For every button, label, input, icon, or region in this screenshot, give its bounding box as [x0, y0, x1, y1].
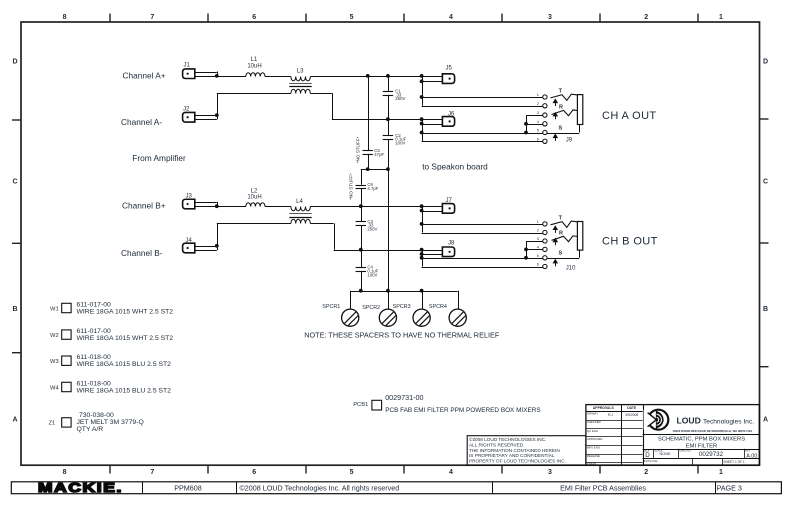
footer assemblies	[560, 483, 646, 492]
wire J1 to L1	[217, 76, 246, 78]
label Channel B+	[122, 201, 166, 211]
wire L4 bottom output down to B- bus	[310, 223, 334, 249]
svg-text:QC ENG: QC ENG	[587, 429, 598, 433]
svg-text:SPCR2: SPCR2	[362, 305, 380, 311]
size scale dwg rev row	[644, 448, 757, 459]
svg-text:SPCR1: SPCR1	[322, 304, 340, 310]
jack J9 CH A OUT	[422, 89, 583, 144]
node J8 blade top	[420, 248, 424, 252]
pcb item PCB1	[353, 393, 540, 414]
svg-text:5: 5	[350, 14, 354, 21]
svg-text:J10: J10	[566, 265, 576, 271]
ground bus to spacers	[350, 291, 458, 293]
svg-text:611-018-00: 611-018-00	[77, 381, 111, 388]
wire J3 to L2	[217, 206, 246, 208]
node J7 blade bottom	[420, 209, 424, 213]
node A- bus at C2	[386, 117, 390, 121]
svg-text:From Amplifier: From Amplifier	[132, 153, 186, 163]
wire L2 to L4	[265, 206, 291, 208]
node A+ bus at right cap column	[386, 74, 390, 78]
svg-text:B: B	[12, 306, 17, 313]
svg-text:2: 2	[644, 14, 648, 21]
label Channel A-	[121, 117, 162, 127]
svg-text:5: 5	[537, 254, 539, 258]
svg-text:SPCR4: SPCR4	[429, 304, 447, 310]
svg-text:2: 2	[644, 469, 648, 476]
wire L3 top output to J5 bus	[310, 76, 421, 78]
svg-text:1: 1	[719, 469, 723, 476]
grid column numbers	[63, 14, 723, 476]
svg-text:6: 6	[537, 263, 539, 267]
wire item W3	[50, 354, 171, 368]
svg-text:W3: W3	[50, 359, 59, 365]
svg-text:APPROVED: APPROVED	[587, 437, 603, 441]
svg-text:4.7pF: 4.7pF	[367, 186, 378, 191]
wire L4 top output to J7 bus	[310, 206, 421, 208]
node junction bar right	[386, 167, 390, 171]
approvals table text	[587, 406, 638, 466]
node J8 blade bottom	[420, 252, 424, 256]
svg-text:NONE: NONE	[660, 452, 671, 456]
svg-text:EMI Filter PCB Assemblies: EMI Filter PCB Assemblies	[560, 483, 646, 492]
svg-text:3: 3	[537, 111, 539, 115]
note about spacers	[304, 331, 500, 340]
wire B- bus to J8	[334, 250, 422, 252]
node on A+ at J1	[215, 74, 219, 78]
svg-text:MFG ENG: MFG ENG	[587, 446, 600, 450]
svg-text:DATE: DATE	[627, 406, 637, 410]
footer table	[11, 482, 781, 494]
svg-text:DATA FILE: DATA FILE	[644, 459, 658, 463]
svg-text:1: 1	[719, 14, 723, 21]
svg-text:J5: J5	[446, 65, 453, 71]
svg-text:WIRE 18GA 1015 WHT 2.5 ST2: WIRE 18GA 1015 WHT 2.5 ST2	[77, 335, 174, 342]
capacitor C4 0.1uF 100V	[356, 250, 379, 291]
spacer SPCR2	[362, 291, 396, 327]
svg-text:Z1: Z1	[49, 420, 56, 426]
svg-text:DRAWN: DRAWN	[587, 412, 597, 416]
node sleeve branch A	[420, 131, 424, 135]
label Channel A+	[123, 70, 166, 80]
wire item W1	[50, 302, 173, 316]
svg-text:10uH: 10uH	[247, 63, 261, 69]
svg-text:IS PROPRIETARY AND CONFIDENTIA: IS PROPRIETARY AND CONFIDENTIAL	[469, 453, 555, 458]
connector J2	[183, 107, 218, 122]
svg-text:3: 3	[548, 469, 552, 476]
svg-text:CHECKED: CHECKED	[587, 420, 601, 424]
svg-text:SCHEMATIC, PPM BOX MIXERS: SCHEMATIC, PPM BOX MIXERS	[658, 437, 745, 443]
node at J4	[215, 244, 219, 248]
svg-text:4: 4	[537, 120, 539, 124]
svg-text:5: 5	[350, 469, 354, 476]
svg-text:LOUD: LOUD	[677, 415, 701, 425]
svg-text:1: 1	[537, 220, 539, 224]
svg-text:100V: 100V	[367, 272, 377, 277]
wire item W4	[50, 381, 171, 395]
svg-text:730-038-00: 730-038-00	[79, 412, 114, 419]
inductor L2 10uH	[246, 188, 265, 206]
LOUD Technologies Inc text	[673, 415, 755, 433]
common-mode choke L4	[289, 199, 311, 224]
svg-text:W2: W2	[50, 333, 59, 339]
node A+ bus at left cap column	[366, 74, 370, 78]
junction bar between cap columns	[361, 169, 388, 171]
node ground bus SPCR3 drop	[420, 289, 424, 293]
node ground bus left column	[359, 289, 363, 293]
svg-text:to Speakon board: to Speakon board	[422, 162, 488, 172]
svg-text:REV: REV	[745, 448, 751, 452]
node J5 blade top	[420, 74, 424, 78]
svg-text:S: S	[558, 125, 562, 131]
svg-text:611-018-00: 611-018-00	[77, 354, 111, 361]
connector J8	[422, 241, 455, 257]
svg-text:6: 6	[537, 137, 539, 141]
svg-text:4: 4	[449, 469, 453, 476]
connector J6	[422, 111, 455, 126]
svg-text:C: C	[763, 179, 768, 186]
svg-text:6: 6	[252, 14, 256, 21]
wire item W2	[50, 328, 173, 342]
node junction bar left	[366, 167, 370, 171]
connector J1	[183, 63, 218, 79]
svg-text:A.00: A.00	[746, 453, 757, 459]
svg-text:Channel B-: Channel B-	[121, 248, 163, 258]
svg-text:S: S	[558, 251, 562, 257]
svg-text:THE INFORMATION CONTAINED HERE: THE INFORMATION CONTAINED HEREIN	[469, 448, 560, 453]
svg-text:47pF: 47pF	[374, 152, 384, 157]
svg-text:MACKIE.: MACKIE.	[38, 481, 123, 495]
svg-text:FINISH: FINISH	[587, 461, 596, 465]
svg-text:2: 2	[537, 102, 539, 106]
svg-text:611-017-00: 611-017-00	[77, 328, 111, 335]
svg-text:CH B OUT: CH B OUT	[602, 235, 658, 247]
capacitor C5 47pF no-stuff	[355, 76, 384, 169]
label CH A OUT	[602, 110, 657, 122]
svg-text:SHEET 1 OF 1: SHEET 1 OF 1	[724, 460, 745, 464]
svg-text:J1: J1	[184, 63, 191, 69]
grid row letters	[12, 59, 768, 424]
node J5 blade bottom	[420, 79, 424, 83]
svg-text:8: 8	[63, 469, 67, 476]
svg-text:W1: W1	[50, 307, 59, 313]
svg-text:3: 3	[548, 14, 552, 21]
svg-text:0029732: 0029732	[699, 451, 724, 458]
svg-text:L3: L3	[297, 69, 304, 75]
svg-text:16220 WOOD-RED ROAD NE WOODIN: 16220 WOOD-RED ROAD NE WOODINVILLE, WA 9…	[673, 429, 753, 433]
wire L3 bottom output down to A- bus	[310, 93, 332, 119]
connector J7	[422, 198, 455, 213]
svg-text:A: A	[763, 417, 768, 424]
label From Amplifier	[132, 153, 186, 163]
label to Speakon board	[422, 162, 488, 172]
svg-text:Channel A-: Channel A-	[121, 117, 162, 127]
LOUD Technologies logo	[644, 410, 669, 430]
svg-text:100V: 100V	[395, 140, 405, 145]
svg-text:250V: 250V	[395, 96, 405, 101]
svg-text:CH A OUT: CH A OUT	[602, 110, 657, 122]
wire J5 branch down to jack pins	[422, 76, 424, 106]
svg-text:D: D	[763, 59, 768, 66]
connector J4	[183, 238, 218, 253]
svg-text:DWG NO.: DWG NO.	[680, 448, 692, 452]
svg-text:7: 7	[150, 469, 154, 476]
svg-text:R: R	[559, 230, 563, 236]
svg-text:PAGE 3: PAGE 3	[717, 483, 742, 492]
wire J6 branch down to sleeve pins	[422, 119, 424, 141]
node J7 blade top	[420, 204, 424, 208]
svg-text:J9: J9	[566, 138, 573, 144]
svg-text:A: A	[12, 417, 17, 424]
svg-text:0029731-00: 0029731-00	[385, 393, 423, 402]
node pin1 branch B	[420, 222, 424, 226]
svg-text:611-017-00: 611-017-00	[77, 302, 111, 309]
wire L1 to L3	[265, 76, 291, 78]
capacitor C6 4.7pF no-stuff	[348, 169, 378, 206]
svg-text:R.J: R.J	[608, 413, 613, 417]
svg-text:PCB FAB EMI FILTER PPM POWERED: PCB FAB EMI FILTER PPM POWERED BOX MIXER…	[385, 407, 540, 414]
svg-text:APPROVALS: APPROVALS	[593, 406, 615, 410]
svg-text:RELEASE: RELEASE	[587, 454, 600, 458]
node sleeve branch B	[420, 256, 424, 260]
connector J5	[422, 65, 455, 83]
svg-text:W4: W4	[50, 386, 59, 392]
svg-text:*NO STUFF*: *NO STUFF*	[348, 173, 353, 200]
svg-text:©2008 LOUD TECHNOLOGIES INC.: ©2008 LOUD TECHNOLOGIES INC.	[469, 436, 546, 442]
svg-text:©2008 LOUD Technologies Inc.: ©2008 LOUD Technologies Inc. All rights …	[240, 483, 400, 492]
label Channel B-	[121, 248, 163, 258]
spacer SPCR1	[322, 291, 359, 327]
label CH B OUT	[602, 235, 658, 247]
svg-text:Channel A+: Channel A+	[123, 70, 166, 80]
wire A- bus to J6	[332, 119, 422, 121]
svg-text:PROPERTY OF LOUD TECHNOLOGIES: PROPERTY OF LOUD TECHNOLOGIES INC.	[469, 459, 566, 464]
svg-text:PCB1: PCB1	[353, 402, 368, 408]
footer copyright	[240, 483, 400, 492]
svg-text:10uH: 10uH	[247, 195, 261, 201]
svg-text:1: 1	[537, 93, 539, 97]
node ground bus right column	[386, 289, 390, 293]
svg-text:D: D	[12, 59, 17, 66]
node J6 blade top	[420, 117, 424, 121]
svg-text:R: R	[559, 104, 563, 110]
jack J10 CH B OUT	[422, 216, 583, 272]
wire right column down to ground bus	[388, 139, 390, 291]
data file sheet row	[644, 459, 745, 464]
node at J2	[215, 113, 219, 117]
svg-text:B: B	[763, 306, 768, 313]
svg-text:WIRE 18GA 1015 BLU 2.5 ST2: WIRE 18GA 1015 BLU 2.5 ST2	[77, 388, 172, 395]
svg-text:4: 4	[449, 14, 453, 21]
spacer SPCR4	[429, 291, 466, 327]
svg-text:5: 5	[537, 129, 539, 133]
glue item Z1	[49, 412, 144, 433]
svg-text:3: 3	[537, 237, 539, 241]
MACKIE logo	[38, 481, 123, 495]
svg-text:250V: 250V	[367, 226, 377, 231]
svg-text:SPCR3: SPCR3	[393, 304, 411, 310]
svg-text:PPM608: PPM608	[174, 483, 202, 492]
connector J3	[183, 193, 218, 208]
wire J4 up to L4 bottom winding	[217, 223, 291, 245]
svg-text:L2: L2	[251, 188, 258, 194]
title block frame	[586, 405, 760, 466]
svg-text:3/9/2008: 3/9/2008	[625, 413, 638, 417]
capacitor C2 0.1uF 100V	[383, 119, 407, 169]
svg-text:8: 8	[63, 14, 67, 21]
svg-text:JET MELT 3M 3779-Q: JET MELT 3M 3779-Q	[77, 419, 144, 426]
node J6 blade bottom	[420, 122, 424, 126]
svg-text:NOTE: THESE SPACERS TO HAVE N: NOTE: THESE SPACERS TO HAVE NO THERMAL R…	[304, 331, 500, 340]
node on B+ at J3	[215, 204, 219, 208]
node B- bus at left column	[359, 248, 363, 252]
svg-text:6: 6	[252, 469, 256, 476]
svg-text:ALL RIGHTS RESERVED: ALL RIGHTS RESERVED	[469, 442, 524, 447]
svg-text:4: 4	[537, 245, 539, 249]
svg-text:WIRE 18GA 1015 BLU 2.5 ST2: WIRE 18GA 1015 BLU 2.5 ST2	[77, 361, 172, 368]
svg-text:L4: L4	[296, 199, 303, 205]
capacitor C3 .33 250V	[356, 206, 378, 250]
wire J7 branch down to jack pins	[422, 206, 424, 232]
footer page	[717, 483, 742, 492]
spacer SPCR3	[393, 291, 431, 327]
node B+ bus at left column	[359, 204, 363, 208]
svg-text:Technologies Inc.: Technologies Inc.	[703, 418, 754, 425]
svg-text:2: 2	[537, 229, 539, 233]
footer PPM608	[174, 483, 202, 492]
inductor L1 10uH	[246, 57, 265, 77]
svg-text:QTY A/R: QTY A/R	[77, 426, 104, 433]
svg-text:J8: J8	[448, 241, 455, 247]
svg-text:Channel B+: Channel B+	[122, 201, 166, 211]
svg-text:7: 7	[150, 14, 154, 21]
title text	[658, 437, 745, 450]
svg-text:WIRE 18GA 1015 WHT 2.5 ST2: WIRE 18GA 1015 WHT 2.5 ST2	[77, 309, 174, 316]
svg-text:L1: L1	[251, 57, 258, 63]
wire J8 branch down to sleeve pins	[422, 250, 424, 267]
wire J2 up to L3 bottom winding	[217, 93, 291, 115]
copyright box	[467, 436, 586, 466]
node pin1 branch A	[420, 95, 424, 99]
capacitor C1 .33 250V	[383, 76, 406, 119]
svg-text:C: C	[12, 179, 17, 186]
svg-text:*NO STUFF*: *NO STUFF*	[355, 137, 360, 164]
common-mode choke L3	[289, 69, 311, 94]
